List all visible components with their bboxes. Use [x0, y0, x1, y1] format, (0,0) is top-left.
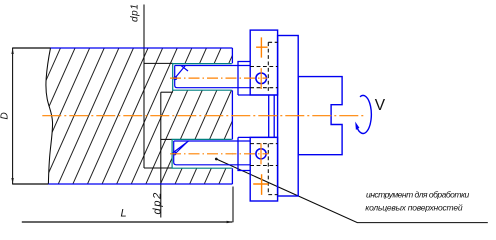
upper clamp nose block: [238, 62, 250, 96]
dimension L line: [22, 221, 233, 223]
dimension dp1 extension line: [143, 5, 145, 169]
lower screw cross: [253, 174, 268, 195]
lower cutter insert edge: [174, 141, 189, 154]
svg-text:кольцевых поверхностей: кольцевых поверхностей: [365, 202, 463, 212]
rotation arc: [356, 95, 371, 133]
lower holder block A2: [250, 137, 277, 201]
main centerline: [42, 115, 364, 117]
svg-text:L: L: [121, 208, 127, 220]
dimension D arrow bottom: [11, 178, 13, 184]
groove 1 interior (machined ring slot, white): [173, 64, 233, 91]
upper cutter bar U1: [174, 66, 250, 88]
dimension D line: [12, 48, 14, 184]
hatch (workpiece section): [0, 47, 295, 190]
lower cutter tip: [173, 152, 176, 155]
workpiece top edge (blue): [51, 47, 233, 49]
svg-text:инструмент для обработки: инструмент для обработки: [366, 190, 469, 200]
workpiece face segments (blue): [231, 48, 233, 184]
svg-text:V: V: [375, 97, 386, 114]
upper holder block A1: [250, 30, 277, 95]
upper circle vertical centerline: [260, 68, 262, 89]
lower nose top edge: [238, 136, 278, 138]
product contour line H2: [161, 91, 173, 93]
workpiece bottom edge (extension part, black): [12, 183, 48, 185]
lower cutter centerline: [170, 153, 269, 155]
workpiece break line: [46, 48, 53, 184]
workpiece bottom edge (blue): [48, 183, 232, 185]
leader dot: [215, 158, 218, 161]
product contour line H4: [144, 167, 172, 169]
face plate column B: [278, 36, 299, 197]
upper screw hole circle: [256, 73, 267, 84]
rotation arrowhead: [355, 122, 359, 130]
lower cutter bar U2: [173, 141, 250, 165]
lower screw hole circle: [256, 149, 266, 159]
product contour line H3: [161, 138, 172, 140]
lower clamp nose block: [238, 137, 250, 170]
lower circle vertical centerline: [260, 143, 262, 164]
workpiece top edge (extension part, black): [12, 47, 50, 49]
groove 1 outline (teal): [173, 64, 232, 91]
upper cutter centerline: [170, 77, 267, 79]
svg-text:D: D: [0, 112, 11, 119]
connecting post lines: [269, 95, 275, 137]
dimension L extension line: [232, 187, 234, 223]
dimension L arrow: [227, 221, 233, 223]
leader line: [216, 159, 488, 223]
tool body with notch: [298, 77, 342, 155]
svg-text:dp2: dp2: [151, 191, 163, 214]
dimension dp2 extension line: [160, 92, 162, 217]
upper cutter tip: [174, 77, 177, 80]
hidden lines upper holder: [250, 42, 277, 92]
upper screw cross: [256, 37, 268, 57]
groove 2 interior (machined ring slot, white): [172, 139, 232, 168]
dimension D arrow top: [11, 48, 13, 54]
hidden lines lower holder: [250, 144, 277, 195]
groove 2 outline (teal): [172, 139, 232, 168]
product contour line H1: [144, 62, 173, 64]
upper cutter insert edge: [175, 66, 188, 78]
upper nose bottom edge: [238, 94, 278, 96]
svg-text:dp1: dp1: [130, 4, 141, 23]
